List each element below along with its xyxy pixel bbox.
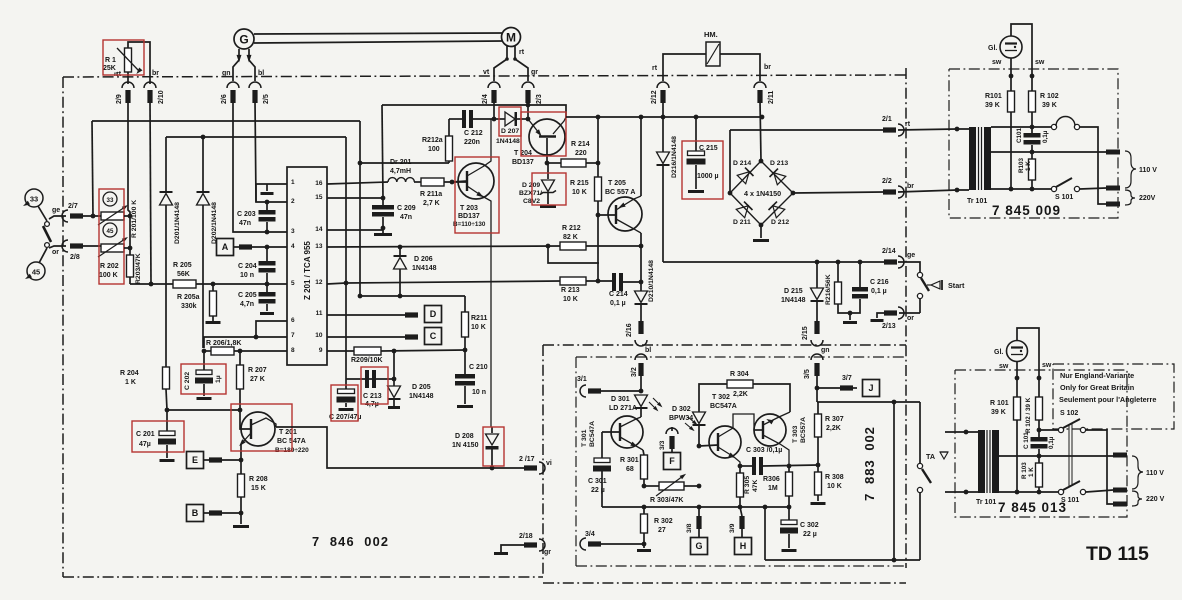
resistor R207 27K [237,351,267,410]
board 7846002 bottom boundary dash-dot [63,576,543,578]
svg-text:47µ: 47µ [139,441,151,448]
capacitor C209 47n [372,198,416,227]
svg-text:10 K: 10 K [572,189,587,196]
svg-text:br: br [764,64,771,71]
wire x598 down to rail281 [597,215,599,281]
svg-text:2/3: 2/3 [536,94,543,104]
highlight box T204 [521,112,566,156]
svg-text:BD137: BD137 [458,213,480,220]
svg-text:25K: 25K [103,65,116,72]
svg-text:2/5: 2/5 [263,94,270,104]
wire speed switch to 2/7 [49,216,66,219]
resistor R308 10K [811,465,844,505]
junction rail117 x696 [694,115,699,120]
svg-text:T 203: T 203 [460,205,478,212]
svg-text:gn: gn [821,347,830,354]
wire pin15 [327,197,383,199]
capacitor C210 10n [455,350,488,408]
svg-text:D 214: D 214 [733,160,751,167]
resistor R103 1K lower [1021,462,1043,492]
svg-text:B: B [192,508,199,518]
svg-text:C 210: C 210 [469,364,488,371]
board boundary horizontal y=345 dash-dot [543,344,906,346]
svg-text:11: 11 [316,310,323,317]
test point A [217,239,288,256]
svg-text:22 µ: 22 µ [591,487,605,494]
wire pin7 [204,337,287,348]
brace 220V lower [1132,491,1165,506]
wire x360 vertical [359,121,361,296]
connector 2/9 [116,82,134,104]
wire rail y246 pin13 [327,246,560,247]
connector 3/2 [631,354,647,391]
wire HM left [663,54,706,81]
wire 2/6 down to pin3 [233,101,287,232]
connector 3/7 and test point J [817,375,880,397]
junction D205 C213 wire [392,377,397,382]
svg-text:C 205: C 205 [238,292,257,299]
label bl [645,347,651,354]
junction R306 top [787,464,792,469]
resistor R205a 330k [177,284,221,324]
svg-text:14: 14 [315,226,323,233]
svg-text:68: 68 [626,466,634,473]
svg-text:39 K: 39 K [991,409,1006,416]
wire jog R212 [548,246,599,263]
svg-text:R212a: R212a [422,137,443,144]
svg-text:9: 9 [319,347,323,354]
junction R302 3/4 [642,542,647,547]
svg-text:2/1: 2/1 [882,116,892,123]
svg-text:10 K: 10 K [563,296,578,303]
board 7846002 top boundary dash-dot [63,75,906,77]
highlight box C201 [132,421,184,452]
svg-text:4 x 1N4150: 4 x 1N4150 [744,189,781,198]
svg-text:R 205a: R 205a [177,294,200,301]
svg-text:1N4148: 1N4148 [781,297,806,304]
motor M [502,28,521,47]
wire y105 row [382,105,566,117]
junction lamp left [1009,74,1014,79]
start switch [898,262,929,313]
diode D216 1N4148 [657,117,679,262]
wire 2/4 down [493,101,495,119]
svg-text:R 202: R 202 [100,263,119,270]
svg-text:Seulement pour l'Angleterre: Seulement pour l'Angleterre [1059,395,1156,404]
capacitor C101 0,1u lower [1023,430,1055,463]
junction C101 R103 mid lower [1037,454,1042,459]
junction rail117 x598 [596,115,601,120]
svg-text:2 /17: 2 /17 [519,456,535,463]
svg-text:D 206: D 206 [414,256,433,263]
svg-text:Gl.: Gl. [988,45,997,52]
junction R206 left [202,349,207,354]
svg-text:0,1µ: 0,1µ [1042,130,1049,143]
svg-text:R216/56K: R216/56K [825,274,832,305]
svg-text:R 206/1,8K: R 206/1,8K [206,340,241,347]
diode D202 1N4148 [197,137,210,348]
svg-text:3/2: 3/2 [631,367,638,377]
capacitor C214 0,1u series [609,273,641,307]
ground below bridge [753,225,769,242]
label R203/47K [135,253,142,284]
transistor T203 BD137 [452,119,494,427]
svg-text:47n: 47n [239,220,251,227]
svg-text:2/4: 2/4 [482,94,489,104]
svg-text:R101: R101 [985,93,1002,100]
svg-text:bl: bl [645,347,651,354]
highlight box T203 [455,157,499,233]
svg-text:R 1: R 1 [105,57,116,64]
wire pin14 [327,229,383,231]
connector 2/5 [249,82,270,104]
resistor R205 56K [173,262,196,288]
wire 2/12 down [662,101,664,117]
svg-text:or: or [52,249,59,256]
junction rail507 3/8 [697,505,702,510]
start actuator symbol [927,280,965,290]
junction C209 top [381,196,386,201]
junction rail507 TA [763,505,768,510]
svg-text:10 K: 10 K [827,483,842,490]
IC pin numbers left [291,179,295,354]
speed switch lever [38,206,51,263]
svg-text:sw: sw [1035,59,1045,66]
transistor T201 BC547A [237,410,309,460]
junction R207 T201 [238,408,243,413]
resistor R302 27 [641,507,673,544]
junction 2/10 rail283 [149,282,154,287]
svg-text:D 213: D 213 [770,160,788,167]
junction T201 emitter [239,458,244,463]
wire G-M lower [254,41,502,43]
inductor Dr201 4,7mH [327,159,414,184]
diode D210 1N4148 [635,246,656,321]
IC pin numbers right [315,180,323,354]
label or [52,249,59,256]
LED D301 LD271A [609,395,664,417]
svg-text:2/11: 2/11 [768,91,775,104]
svg-text:7 845 009: 7 845 009 [992,203,1061,218]
label sw lower right [1042,362,1052,369]
svg-text:4: 4 [291,243,295,250]
svg-text:D210/1N4148: D210/1N4148 [648,260,655,302]
svg-text:gn: gn [222,70,231,77]
transistor T301 BC547A [581,416,643,450]
svg-text:S 101: S 101 [1055,194,1073,201]
wire x765 down [764,507,766,560]
capacitor C203 47n [237,202,276,232]
svg-text:100 K: 100 K [99,272,118,279]
ganged switch link [1069,424,1072,486]
connector 3/8 and test point G [686,507,708,555]
diode D215 1N4148 [781,262,824,321]
junction R215 base [596,213,601,218]
test point D [327,306,442,323]
svg-text:R 215: R 215 [570,180,589,187]
svg-text:27 K: 27 K [250,376,265,383]
resistor R203 [127,255,134,284]
svg-text:3/7: 3/7 [842,375,852,382]
highlight box C215 [682,141,723,199]
label R201/100K [131,200,138,238]
svg-text:2,2K: 2,2K [826,425,841,432]
wire 2/10 down to rail283 [150,101,151,284]
svg-text:sw: sw [992,59,1002,66]
diode D208 1N4150 [452,427,499,470]
resistor R306 1M [763,466,793,507]
svg-text:TA: TA [926,452,935,461]
svg-text:2/13: 2/13 [882,323,896,330]
svg-text:1000 µ: 1000 µ [697,173,719,180]
svg-text:8: 8 [291,347,295,354]
junction R214 right [596,161,601,166]
svg-text:T 205: T 205 [608,180,626,187]
resistor R101 39K upper [985,76,1015,189]
capacitor C212 220n series [449,110,494,146]
svg-text:1: 1 [291,179,295,186]
svg-text:C 207/47µ: C 207/47µ [329,414,361,421]
capacitor C215 1000u [687,117,719,193]
svg-text:R 207: R 207 [248,367,267,374]
connector 2/10 [144,82,165,104]
resistor R208 15K [238,460,268,513]
svg-text:Dr 201: Dr 201 [390,159,412,166]
highlight box D208 [483,427,504,466]
resistor R305 47K [737,466,760,507]
svg-text:47n: 47n [400,214,412,221]
svg-text:G: G [239,33,248,47]
svg-text:D 205: D 205 [412,384,431,391]
svg-text:Nur England-Variante: Nur England-Variante [1060,371,1134,380]
svg-text:or: or [907,315,914,322]
mains plug pins lower [1113,453,1127,507]
label rt [116,71,122,78]
svg-text:D 211: D 211 [733,219,751,226]
switch S102 [1037,410,1113,504]
junction D215 y262 [815,260,820,265]
wire secondary top upper [991,125,1034,130]
svg-text:vt: vt [483,69,490,76]
svg-text:2/18: 2/18 [519,533,533,540]
svg-text:45: 45 [32,268,40,277]
transformer Tr101 upper [898,127,991,205]
junction T204 emitter [545,161,550,166]
wire speed switch to 2/8 [49,246,66,248]
resistor R212 82K [560,225,642,250]
junction 2/3 y105 [526,103,531,108]
svg-text:R 302: R 302 [654,518,673,525]
junction pin6 pin7 [254,335,259,340]
junction C212 2/4 [492,117,497,122]
wire 2/3 down [527,101,529,119]
svg-text:R 102: R 102 [1040,93,1059,100]
svg-text:R 301: R 301 [620,457,639,464]
svg-text:R 204: R 204 [120,370,139,377]
junction D202 rail137 [201,135,206,140]
junction lamp lower left [1015,376,1020,381]
svg-text:1N4148: 1N4148 [412,265,437,272]
wire 2/5 down to pin2 [255,101,287,202]
capacitor C216 0,1u [850,262,889,313]
svg-text:G: G [695,541,702,551]
connector 2/11 [754,82,775,104]
capacitor C213 4,7u series [363,370,382,408]
svg-text:C101: C101 [1016,127,1023,143]
svg-text:3: 3 [291,228,295,235]
test point E [187,452,242,469]
svg-text:BD137: BD137 [512,159,534,166]
wire rail y282 [346,281,560,283]
junction lamp right [1030,74,1035,79]
svg-text:R 305: R 305 [744,476,751,494]
svg-text:2/10: 2/10 [158,90,165,104]
junction R212 left [546,244,551,249]
connector 2/8 [62,240,83,261]
svg-text:BZX71/: BZX71/ [519,190,542,197]
connector 3/9 and test point H [729,507,752,555]
junction C214 right [639,280,644,285]
junction pin12 x346 [344,281,349,286]
wire 2/7 to R201 [83,215,101,217]
board boundary bottom right dash-dot [543,582,906,584]
wire T201 base row [167,409,240,411]
wire TA return [765,559,920,561]
junction R201 out [128,214,133,219]
speed selector circled 45 [24,262,45,281]
svg-text:gr: gr [544,549,551,556]
highlight box T201 [231,404,292,451]
svg-text:rt: rt [519,49,525,56]
brace 220V upper [1125,190,1156,205]
junction 3/1 D301 [639,389,644,394]
wire x452 up [451,181,453,183]
svg-text:3/8: 3/8 [686,523,693,533]
svg-text:47K: 47K [752,479,759,492]
connector 2/7 [62,203,83,222]
svg-text:C 302: C 302 [800,522,819,529]
highlight box C207 [331,385,358,421]
svg-text:3/1: 3/1 [577,376,587,383]
connector 2/2 [882,178,914,198]
svg-text:39 K: 39 K [985,102,1000,109]
wire pin1 link [256,184,287,202]
wire y379 row [346,378,394,380]
svg-text:2/12: 2/12 [651,90,658,104]
resistor R206 1,8K [204,340,287,355]
junction rail117 x641 [639,115,644,120]
svg-text:T 303: T 303 [792,425,799,443]
transistor T205 BC557A [598,180,642,233]
svg-text:T 302: T 302 [712,394,730,401]
potentiometer R201 33-speed [98,192,129,225]
wire x598 rail117 to R214 [597,117,599,163]
svg-text:H: H [740,541,747,551]
svg-text:R 101: R 101 [990,400,1009,407]
svg-text:2/7: 2/7 [68,203,78,210]
svg-text:2,7 K: 2,7 K [423,200,440,207]
wire secondary 110V upper [991,151,1106,153]
England variant note dashed box [1053,364,1174,429]
svg-text:rt: rt [652,65,658,72]
connector 3/4 [580,531,644,550]
label board 7 846 002 [312,534,389,549]
junction R303 right [697,484,702,489]
junction rail507 C302 [787,505,792,510]
svg-text:D 207: D 207 [501,128,519,135]
highlight box C202 [181,364,226,394]
svg-text:7 883 002: 7 883 002 [862,426,877,501]
svg-text:10: 10 [315,332,323,339]
svg-text:0,1 µ: 0,1 µ [871,288,887,295]
wire rail y284 pin5 [130,283,287,285]
svg-text:D 301: D 301 [611,396,630,403]
svg-text:rt: rt [905,121,911,128]
wire pot junction column [124,216,130,255]
wire pot R202 out [124,247,130,249]
wire bridge to 2/1 [730,129,883,131]
junction R301 R303 [642,484,647,489]
svg-text:gr: gr [531,69,538,76]
brace 110V upper [1125,151,1157,188]
zener diode D209 BZX71 C8V2 [519,163,556,208]
potentiometer R1 25K [103,42,150,84]
svg-text:Tr 101: Tr 101 [967,198,987,205]
wire T205 emitter up [640,117,642,196]
svg-text:1M: 1M [768,485,778,492]
junction x360 y163 [358,161,363,166]
wire T201 collector to 2/17 [276,427,524,468]
svg-text:82 K: 82 K [563,234,578,241]
junction C204 top [265,245,270,250]
svg-text:B=110÷130: B=110÷130 [453,221,486,228]
svg-text:C 301: C 301 [588,478,607,485]
svg-text:J: J [868,383,873,393]
generator G [234,29,254,49]
wire rail y296 [360,295,465,297]
ground stub pin1 [261,184,274,195]
junction y402 x894 [892,400,897,405]
svg-text:2: 2 [291,198,295,205]
svg-text:E: E [192,455,198,465]
resistor R216 56K [825,262,850,313]
svg-text:R203/47K: R203/47K [135,253,142,284]
svg-text:M: M [506,31,516,45]
wire rail y163 [360,162,449,164]
svg-text:C 214: C 214 [609,291,628,298]
svg-text:2/14: 2/14 [882,248,896,255]
highlight box C213 [361,367,388,404]
svg-text:0,1µ: 0,1µ [1048,436,1055,449]
wire rail y121 [92,120,360,122]
svg-text:C 213: C 213 [363,393,382,400]
svg-text:R 213: R 213 [561,287,580,294]
label sw upper left [992,59,1002,66]
svg-text:vi: vi [546,460,552,467]
svg-text:220: 220 [575,150,587,157]
highlight box D207 [499,107,521,136]
wire M to connectors 2/4 2/3 [494,46,528,81]
wire G to connectors 2/6 2/5 [233,49,255,81]
svg-text:3/5: 3/5 [804,369,811,379]
svg-text:Start: Start [948,281,965,290]
connector 2/18 with ground [494,533,551,556]
junction R202 out [128,246,133,251]
svg-text:2/8: 2/8 [70,254,80,261]
svg-text:R 212: R 212 [562,225,581,232]
connector 2/15 [802,321,823,346]
wire rail y507 [602,506,789,508]
